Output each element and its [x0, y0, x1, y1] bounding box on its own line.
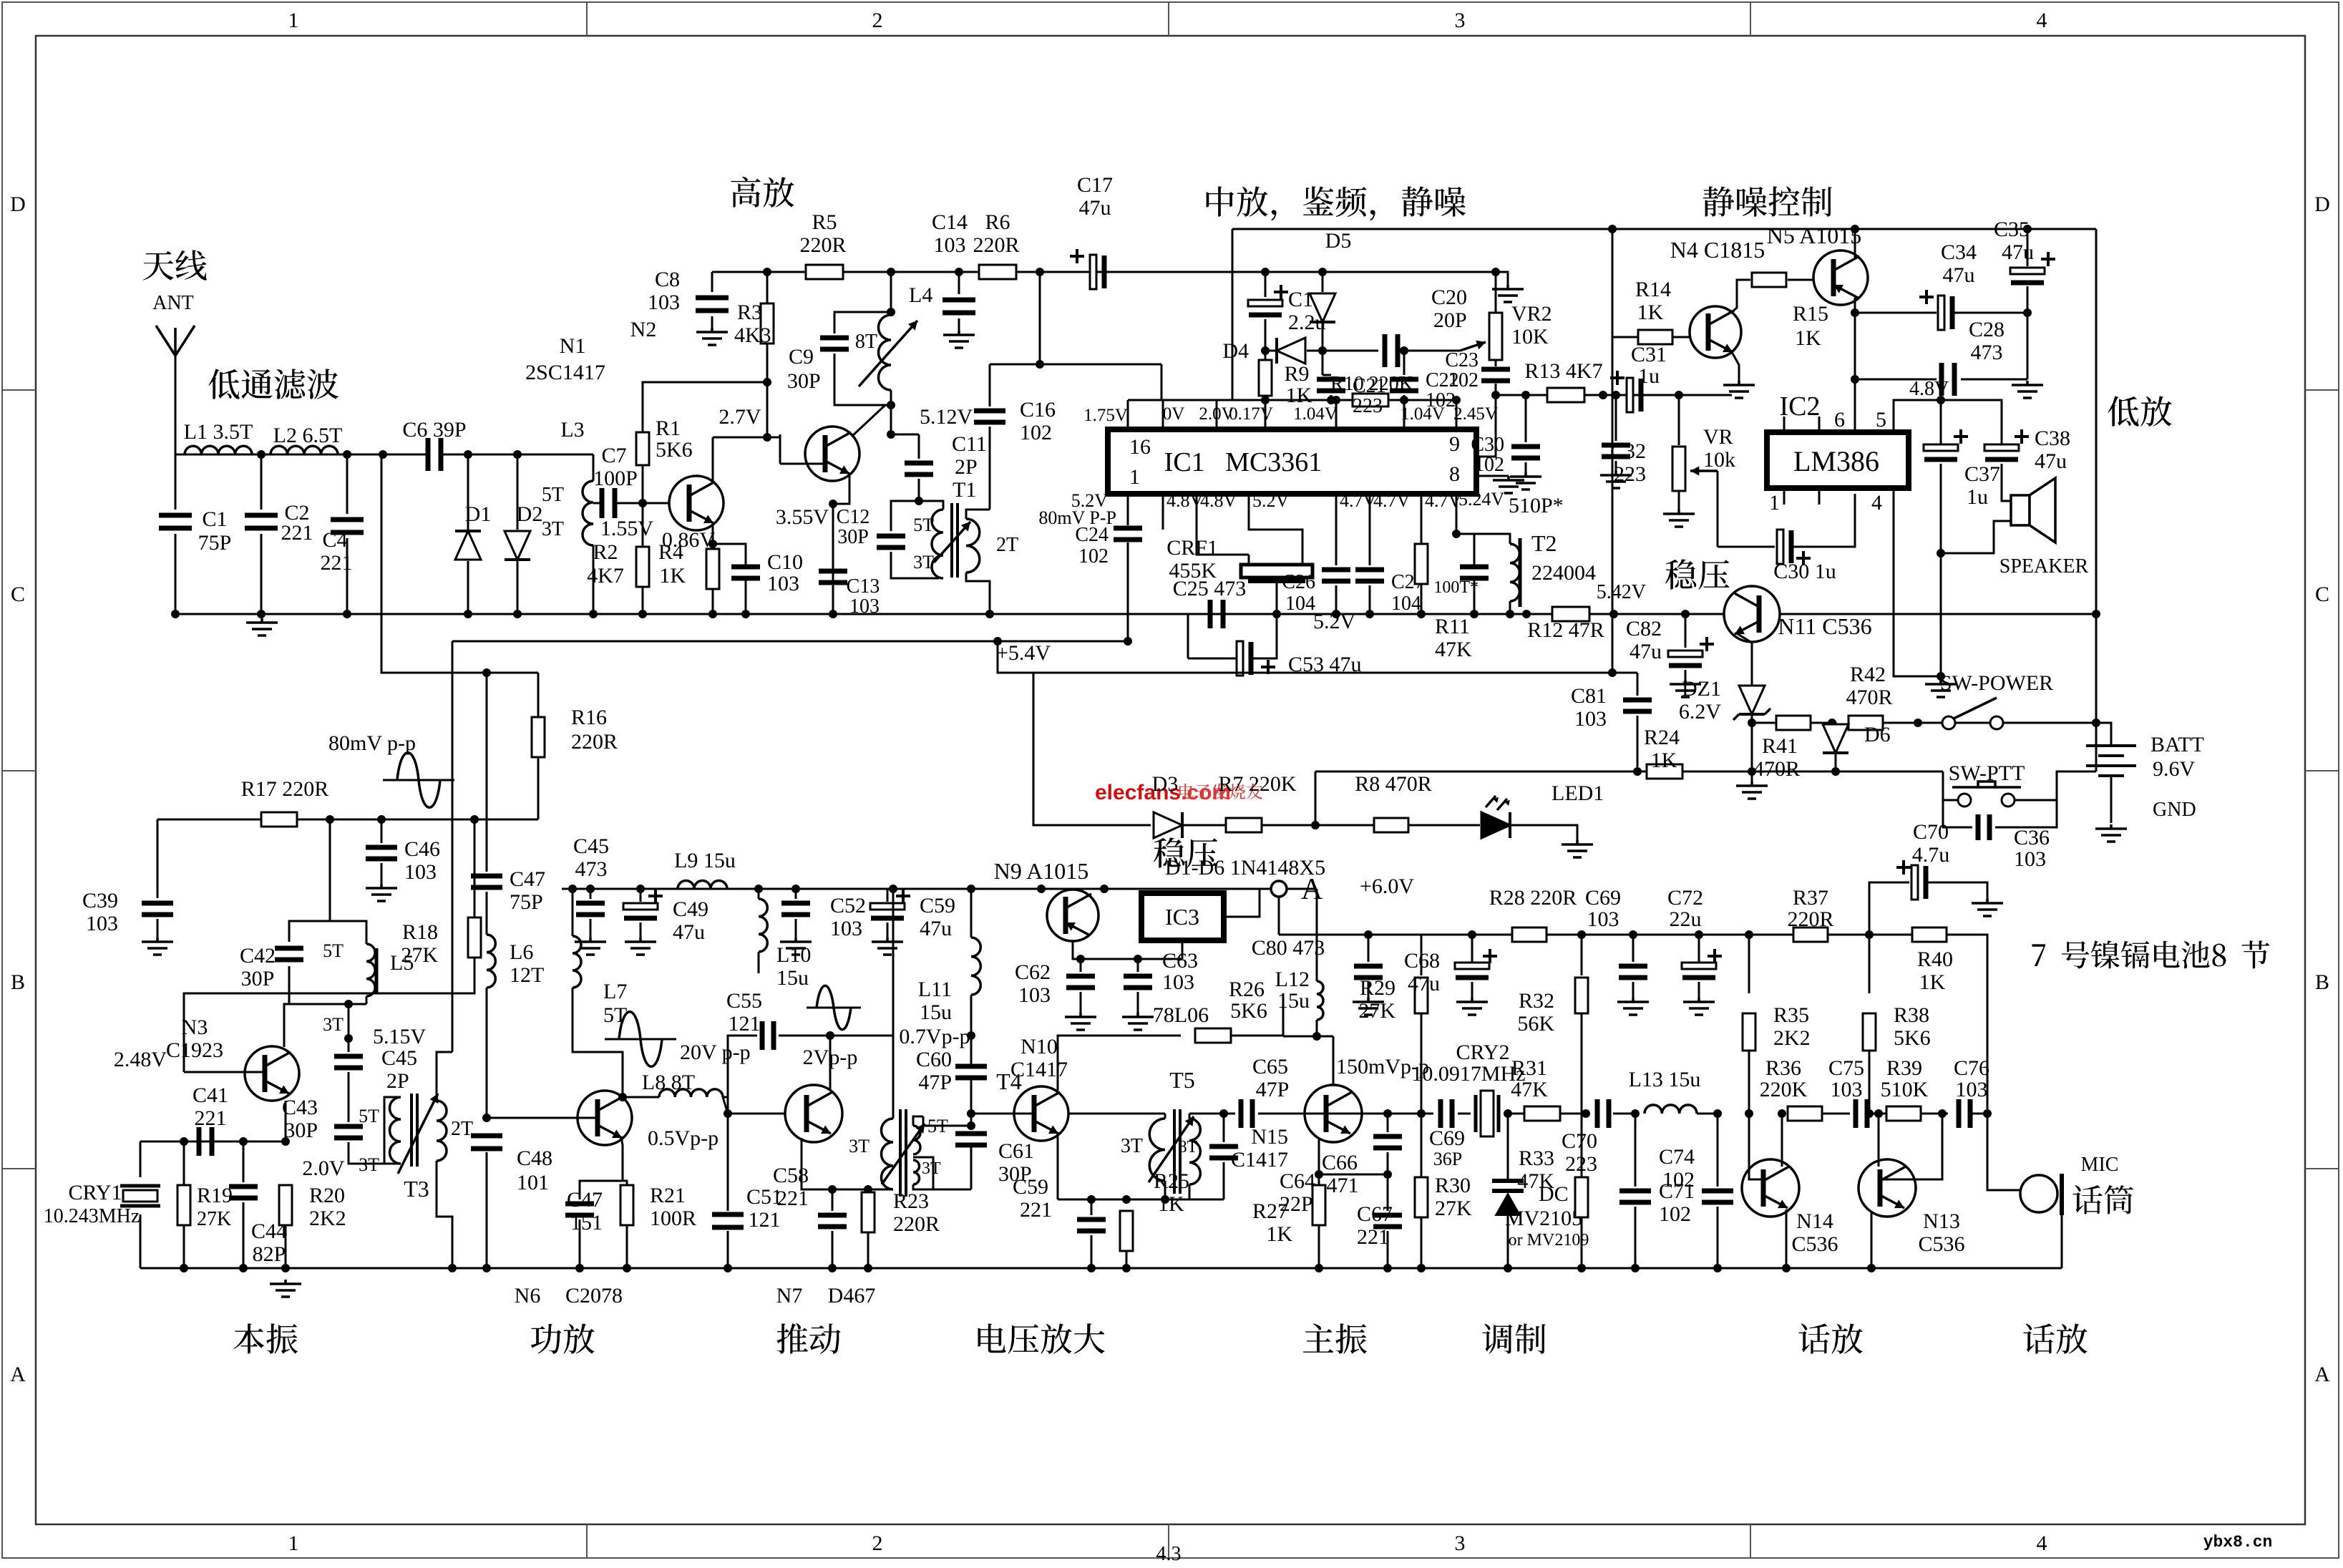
resistor R13 4K7 [1547, 388, 1584, 402]
svg-text:R19: R19 [197, 1184, 233, 1207]
title 低放 [2108, 396, 2171, 426]
wire N3 collector [284, 1004, 289, 1047]
svg-text:C4: C4 [322, 528, 347, 552]
svg-text:D3: D3 [1152, 772, 1179, 796]
svg-text:L1 3.5T: L1 3.5T [184, 420, 253, 444]
svg-text:C42: C42 [240, 944, 276, 968]
wire N7 emitter [802, 1138, 893, 1189]
svg-text:C66: C66 [1322, 1151, 1358, 1174]
svg-text:A: A [10, 1363, 26, 1386]
capacitor C35 47u electrolytic [2027, 229, 2029, 266]
capacitor C55 121 feedback [728, 1036, 757, 1114]
svg-text:3T: 3T [323, 1014, 344, 1035]
capacitor C22 102 [1403, 351, 1406, 375]
audio wire R13 row [1496, 394, 1732, 396]
svg-text:15u: 15u [776, 966, 809, 990]
antenna ANT symbol [156, 326, 195, 356]
wire N14 base [1749, 1114, 1763, 1179]
svg-text:10.243MHz: 10.243MHz [44, 1205, 140, 1227]
svg-text:C: C [11, 583, 25, 606]
svg-text:C64: C64 [1280, 1169, 1315, 1193]
resistor R28 220R [1512, 927, 1546, 942]
transistor N5 A1015 [1813, 250, 1868, 305]
capacitor C72 22u electrolytic [1698, 935, 1700, 962]
svg-text:20P: 20P [1433, 308, 1467, 332]
title 功放 [531, 1323, 595, 1353]
wire LED node down to R24 [1315, 771, 1317, 825]
svg-text:9: 9 [1449, 432, 1460, 456]
svg-text:121: 121 [749, 1208, 781, 1232]
svg-text:4.7u: 4.7u [1912, 843, 1950, 867]
svg-text:D5: D5 [1325, 229, 1352, 253]
capacitor C44 82P [243, 1141, 245, 1182]
svg-text:C536: C536 [1918, 1232, 1964, 1256]
svg-text:2SC1417: 2SC1417 [525, 361, 605, 384]
wire T4 sec top [923, 1116, 971, 1126]
svg-text:220R: 220R [893, 1212, 940, 1236]
wire N10 emitter [1057, 1132, 1059, 1199]
wire PA supply drop x632 [452, 641, 454, 1042]
resistor R10 220K [1353, 394, 1388, 406]
resistor R19 27K [183, 1141, 185, 1185]
svg-text:C69: C69 [1585, 886, 1621, 910]
svg-text:15u: 15u [920, 1000, 952, 1024]
ground C35/C28 [2012, 381, 2043, 398]
svg-text:C69: C69 [1429, 1126, 1465, 1150]
svg-text:C80 473: C80 473 [1252, 936, 1325, 960]
svg-text:4K7: 4K7 [587, 564, 624, 588]
svg-text:12T: 12T [510, 963, 544, 987]
svg-text:C10: C10 [767, 550, 803, 574]
svg-text:C75: C75 [1828, 1056, 1864, 1080]
wire LPF node line [175, 454, 427, 456]
svg-text:C37: C37 [1964, 462, 2000, 486]
svg-text:4: 4 [1871, 491, 1882, 515]
svg-text:C31: C31 [1631, 343, 1667, 366]
svg-text:1K: 1K [1286, 384, 1312, 407]
inductor L8 8T [659, 1089, 723, 1097]
svg-text:220R: 220R [1787, 907, 1833, 931]
svg-text:47K: 47K [1435, 638, 1472, 661]
svg-text:LED1: LED1 [1552, 781, 1604, 805]
svg-text:470R: 470R [1846, 686, 1892, 709]
svg-text:82P: 82P [253, 1242, 286, 1266]
wire N15 emitter [1318, 1139, 1320, 1174]
svg-text:75P: 75P [510, 890, 543, 914]
capacitor C19 2.2u electrolytic [1265, 272, 1267, 297]
svg-text:102: 102 [1448, 369, 1479, 391]
capacitor C4 221 [346, 454, 349, 514]
svg-text:C68: C68 [1404, 949, 1440, 973]
svg-text:R16: R16 [571, 706, 607, 729]
svg-text:103: 103 [1574, 707, 1607, 731]
title 7号镍镉电池8节 [2032, 940, 2270, 968]
svg-text:L2 6.5T: L2 6.5T [273, 424, 343, 447]
wire N5 base [1788, 279, 1813, 281]
title 高放 [731, 177, 794, 208]
svg-text:1: 1 [1769, 491, 1780, 515]
svg-text:N4 C1815: N4 C1815 [1670, 237, 1765, 263]
title 天线 [142, 250, 206, 280]
title 话放 (N13) [2023, 1323, 2087, 1353]
svg-text:IC2: IC2 [1780, 391, 1821, 422]
title 调制 [1482, 1323, 1545, 1353]
svg-text:C6 39P: C6 39P [402, 418, 466, 442]
capacitor C12 tank bracket [891, 501, 919, 531]
transistor N7 D467 [785, 1085, 842, 1142]
svg-text:C82: C82 [1626, 617, 1662, 641]
svg-text:1u: 1u [1967, 485, 1988, 509]
svg-text:2K2: 2K2 [1773, 1026, 1811, 1050]
svg-text:L7: L7 [603, 980, 627, 1003]
diode D3 [1154, 812, 1182, 838]
wire antenna stem [175, 356, 177, 454]
svg-text:N14: N14 [1796, 1209, 1833, 1233]
wire squelch top rail [1855, 228, 2096, 230]
svg-text:C26: C26 [1282, 571, 1315, 593]
resistor R16 220R [537, 673, 540, 717]
svg-text:2P: 2P [386, 1069, 409, 1093]
svg-text:102: 102 [1662, 1168, 1695, 1192]
inductor L6 12T [487, 935, 495, 988]
svg-text:VR: VR [1703, 425, 1733, 449]
title 稳压 (IC3) [1154, 837, 1218, 867]
capacitor C6 39P [428, 438, 441, 471]
svg-text:R28 220R: R28 220R [1489, 886, 1577, 910]
svg-text:R27: R27 [1252, 1199, 1288, 1223]
svg-text:2.0V: 2.0V [302, 1156, 345, 1180]
svg-text:C59: C59 [1013, 1175, 1048, 1199]
IC1 bottom pins [1127, 494, 1129, 512]
svg-text:ybx8.cn: ybx8.cn [2203, 1533, 2273, 1552]
capacitor C30 1u electrolytic [1718, 546, 1775, 548]
svg-text:27K: 27K [1435, 1197, 1472, 1220]
wire audio supply drop [1278, 897, 1280, 935]
capacitor C11 2P [890, 405, 892, 434]
svg-text:A: A [2314, 1363, 2330, 1386]
battery BATT 9.6V [2086, 746, 2136, 776]
svg-text:5K6: 5K6 [1894, 1026, 1931, 1050]
svg-text:N9 A1015: N9 A1015 [994, 858, 1088, 884]
svg-text:R12 47R: R12 47R [1527, 618, 1604, 642]
svg-text:100P: 100P [593, 467, 638, 490]
capacitor C45 473 [590, 889, 592, 899]
IC3 78L06 box [1141, 893, 1224, 940]
inductor L13 15u [1645, 1105, 1697, 1114]
resistor R38 5K6 [1869, 935, 1871, 993]
svg-text:27K: 27K [197, 1208, 231, 1230]
svg-text:4.8V: 4.8V [1166, 490, 1204, 511]
svg-text:C49: C49 [673, 897, 708, 921]
svg-text:L8 8T: L8 8T [642, 1071, 695, 1094]
transformer T5 [1164, 1114, 1166, 1119]
resistor R7 220K [1226, 818, 1262, 832]
resistor R42 470R [1828, 719, 1836, 727]
wire top supply rail [712, 271, 1496, 273]
sine 80mV p-p [383, 779, 454, 781]
capacitor C64 22P [1223, 1114, 1225, 1142]
svg-text:3T: 3T [922, 1159, 941, 1178]
capacitor C60 47P [955, 1066, 987, 1078]
resistor R12 47R [1552, 607, 1589, 621]
wire emitter node [1319, 1174, 1388, 1176]
svg-text:VR2: VR2 [1511, 302, 1552, 326]
svg-text:47u: 47u [2035, 449, 2067, 473]
capacitor C16 102 [989, 364, 991, 406]
svg-text:8: 8 [1449, 462, 1460, 486]
svg-text:R21: R21 [650, 1184, 686, 1207]
svg-text:C45: C45 [573, 834, 609, 858]
resistor R2 4K7 [642, 503, 644, 547]
wire N4 collector [1732, 280, 1750, 312]
wire C47 column [486, 673, 488, 872]
resistor R40 1K [1912, 927, 1947, 942]
svg-text:103: 103 [2014, 847, 2046, 871]
svg-text:C59: C59 [920, 894, 955, 917]
resistor R25 1K [1120, 1211, 1133, 1251]
resistor R29 27K [1421, 935, 1423, 975]
main mid rail [175, 613, 2096, 615]
svg-text:1K: 1K [659, 564, 686, 588]
svg-text:C60: C60 [916, 1048, 952, 1071]
capacitor C75 103 [1822, 1113, 1850, 1115]
svg-text:R26: R26 [1229, 978, 1265, 1001]
wire N1 collector [712, 437, 714, 484]
inductor L12 15u [1316, 889, 1318, 981]
wire N7 collector [829, 1036, 832, 1091]
svg-text:20V p-p: 20V p-p [680, 1041, 751, 1064]
svg-text:C21: C21 [1353, 375, 1386, 397]
capacitor C37 1u electrolytic [1940, 400, 1942, 444]
transistor N14 C536 [1742, 1159, 1799, 1217]
capacitor C31 1u electrolytic [1627, 378, 1633, 412]
svg-text:10.0917MHz: 10.0917MHz [1411, 1062, 1525, 1086]
svg-text:3T: 3T [542, 518, 564, 540]
wire pin8 ground [1476, 475, 1509, 477]
capacitor C53 47u electrolytic [1237, 641, 1243, 676]
svg-text:SW-POWER: SW-POWER [1940, 671, 2053, 695]
wire C-row supply [562, 888, 1317, 890]
IC2 LM386 box [1767, 432, 1909, 488]
wire N5 collector to pin6 line [1854, 298, 1856, 432]
svg-text:L5: L5 [390, 951, 414, 975]
diode D2 [517, 454, 519, 530]
svg-text:C52: C52 [830, 894, 866, 917]
svg-text:IC1 MC3361: IC1 MC3361 [1164, 447, 1322, 477]
svg-text:R35: R35 [1773, 1003, 1809, 1027]
svg-text:4.8V: 4.8V [1200, 490, 1237, 511]
svg-text:L4: L4 [909, 283, 932, 307]
wire N14 collector [1781, 1114, 1783, 1167]
svg-text:1.04V: 1.04V [1293, 404, 1338, 424]
svg-text:1K: 1K [1795, 326, 1821, 350]
svg-text:R11: R11 [1435, 615, 1470, 638]
svg-text:104: 104 [1391, 593, 1421, 615]
svg-text:C45: C45 [381, 1046, 417, 1070]
svg-text:R23: R23 [893, 1189, 929, 1213]
ground LPF [246, 618, 278, 636]
svg-text:100T*: 100T* [1433, 578, 1479, 597]
wire N15 base row [1305, 1113, 1433, 1115]
capacitor C26 104 [1335, 512, 1338, 565]
svg-text:47u: 47u [1408, 972, 1440, 995]
wire N2 collector to L4 [852, 405, 885, 437]
wire R24 row to LED node [1315, 771, 1637, 773]
svg-text:4.7V: 4.7V [1340, 490, 1377, 511]
resistor R20 2K2 [279, 1185, 292, 1225]
svg-text:L3: L3 [560, 418, 584, 442]
svg-text:47P: 47P [918, 1071, 952, 1094]
capacitor C70 4.7u electrolytic [1869, 882, 1909, 935]
capacitor C76 103 [1959, 1099, 1970, 1128]
svg-text:22u: 22u [1670, 907, 1702, 931]
svg-text:T3: T3 [404, 1176, 429, 1202]
svg-text:C34: C34 [1941, 240, 1977, 264]
resistor R5 220R [806, 265, 843, 279]
resistor R11 47K [1421, 512, 1423, 544]
svg-text:C13: C13 [847, 575, 880, 598]
transistor N1 2SC1417 [669, 476, 724, 530]
svg-text:BATT: BATT [2150, 733, 2204, 756]
wire L4 to C16/T1 [890, 405, 892, 429]
svg-text:223: 223 [1565, 1152, 1597, 1176]
svg-text:47u: 47u [920, 917, 952, 940]
svg-text:C36: C36 [2014, 826, 2050, 849]
svg-text:5.42V: 5.42V [1597, 581, 1646, 603]
capacitor C34 47u electrolytic [1855, 312, 1937, 314]
crystal CRY1 [140, 1141, 142, 1177]
resistor R3 4K3 [766, 272, 769, 304]
svg-text:L9 15u: L9 15u [674, 849, 736, 872]
svg-text:D6: D6 [1864, 723, 1891, 746]
inductor L9 15u [678, 881, 727, 890]
svg-text:47u: 47u [1943, 263, 1975, 287]
inductor L2 6.5T [271, 446, 338, 454]
svg-text:221: 221 [1357, 1225, 1389, 1249]
wire N2 emitter to C13 node [833, 474, 849, 504]
svg-text:R14: R14 [1635, 278, 1671, 301]
svg-text:3T: 3T [913, 552, 934, 573]
wire collector to N2 base [779, 434, 781, 464]
wire R41/R42 row [1752, 722, 1832, 724]
svg-text:N1: N1 [560, 334, 586, 358]
svg-text:103: 103 [648, 291, 680, 314]
capacitor C47 75P [471, 876, 502, 887]
svg-text:C72: C72 [1667, 886, 1703, 910]
svg-text:C12: C12 [837, 506, 870, 528]
wire osc base row [140, 1141, 286, 1143]
wire pin4 ground leg [1894, 488, 1941, 676]
svg-text:5.24V: 5.24V [1458, 489, 1505, 510]
svg-text:221: 221 [195, 1106, 227, 1130]
capacitor C52 103 [795, 889, 797, 899]
svg-text:D4: D4 [1222, 339, 1249, 363]
capacitor C51 121 [727, 1114, 729, 1211]
IC1 top pin wire 0.17V node [1128, 399, 1456, 401]
svg-text:C: C [2315, 583, 2329, 606]
svg-text:3T: 3T [359, 1154, 379, 1175]
wire C70b node [1865, 930, 1874, 939]
resistor R39 510K [1886, 1106, 1921, 1121]
svg-text:C43: C43 [282, 1096, 318, 1119]
wire N6 base [487, 1117, 598, 1119]
node dots LPF [257, 450, 266, 459]
svg-text:5.12V: 5.12V [920, 405, 973, 429]
svg-text:C61: C61 [998, 1139, 1034, 1163]
svg-text:6.2V: 6.2V [1679, 700, 1722, 724]
svg-text:4.7V: 4.7V [1425, 490, 1462, 511]
svg-text:121: 121 [729, 1012, 761, 1036]
svg-text:1: 1 [288, 9, 299, 32]
svg-text:1K: 1K [1651, 749, 1677, 772]
svg-text:C67: C67 [1357, 1202, 1393, 1226]
title 低通滤波 [208, 369, 338, 399]
title 推动 [776, 1323, 840, 1354]
transformer T2 224004 100T* [1456, 534, 1510, 544]
resistor R35 2K2 [1748, 935, 1750, 993]
svg-text:R40: R40 [1917, 948, 1953, 971]
wire N13 base [1880, 1114, 1942, 1179]
svg-text:C23: C23 [1445, 349, 1479, 371]
wire N10 base [971, 1113, 1034, 1115]
resistor R15 1K [1752, 273, 1786, 287]
wire N4 emitter [1732, 352, 1739, 381]
wire L8 to driver [723, 1097, 728, 1114]
varactor DC MV2105 [1507, 1114, 1509, 1179]
resistor R21 100R [623, 1181, 627, 1185]
capacitor C1 75P [175, 454, 177, 510]
IC1 MC3361 box [1108, 429, 1476, 494]
svg-text:221: 221 [776, 1187, 809, 1210]
svg-text:C536: C536 [1791, 1232, 1838, 1256]
svg-text:5T: 5T [603, 1003, 627, 1027]
svg-text:CRY2: CRY2 [1456, 1041, 1509, 1064]
svg-text:R18: R18 [402, 920, 438, 944]
svg-text:1: 1 [288, 1532, 299, 1555]
svg-text:R7 220K: R7 220K [1218, 772, 1297, 796]
svg-text:471: 471 [1327, 1174, 1359, 1197]
svg-text:ANT: ANT [152, 292, 194, 314]
svg-text:C47: C47 [510, 867, 545, 891]
wire 5.4V bus [998, 641, 1637, 673]
svg-text:or MV2109: or MV2109 [1509, 1231, 1589, 1250]
svg-text:103: 103 [767, 572, 799, 595]
capacitor C8 103 [711, 272, 713, 292]
svg-text:C14: C14 [932, 210, 968, 234]
svg-text:47P: 47P [1256, 1078, 1290, 1101]
svg-text:C1417: C1417 [1231, 1148, 1288, 1172]
terminal A +6.0V [1224, 889, 1272, 917]
svg-text:5K6: 5K6 [656, 438, 693, 462]
svg-text:C39: C39 [82, 889, 118, 912]
svg-text:D: D [10, 193, 26, 216]
svg-text:N11 C536: N11 C536 [1778, 613, 1871, 639]
svg-text:C7: C7 [601, 444, 626, 467]
wire pin5 output [1894, 400, 1941, 432]
resistor R14 1K [1612, 336, 1638, 339]
svg-text:3T: 3T [1121, 1135, 1143, 1157]
svg-text:80mV p-p: 80mV p-p [328, 731, 416, 755]
resistor R1 5K6 [642, 465, 644, 503]
svg-text:2P: 2P [955, 455, 978, 479]
svg-text:C30 1u: C30 1u [1773, 560, 1836, 583]
svg-text:221: 221 [281, 521, 313, 545]
wire N3 base [184, 1071, 265, 1073]
svg-text:R13 4K7: R13 4K7 [1524, 359, 1602, 383]
capacitor C58 221 [832, 1189, 834, 1191]
wire mic return [2061, 1215, 2063, 1268]
svg-text:R20: R20 [309, 1184, 345, 1207]
